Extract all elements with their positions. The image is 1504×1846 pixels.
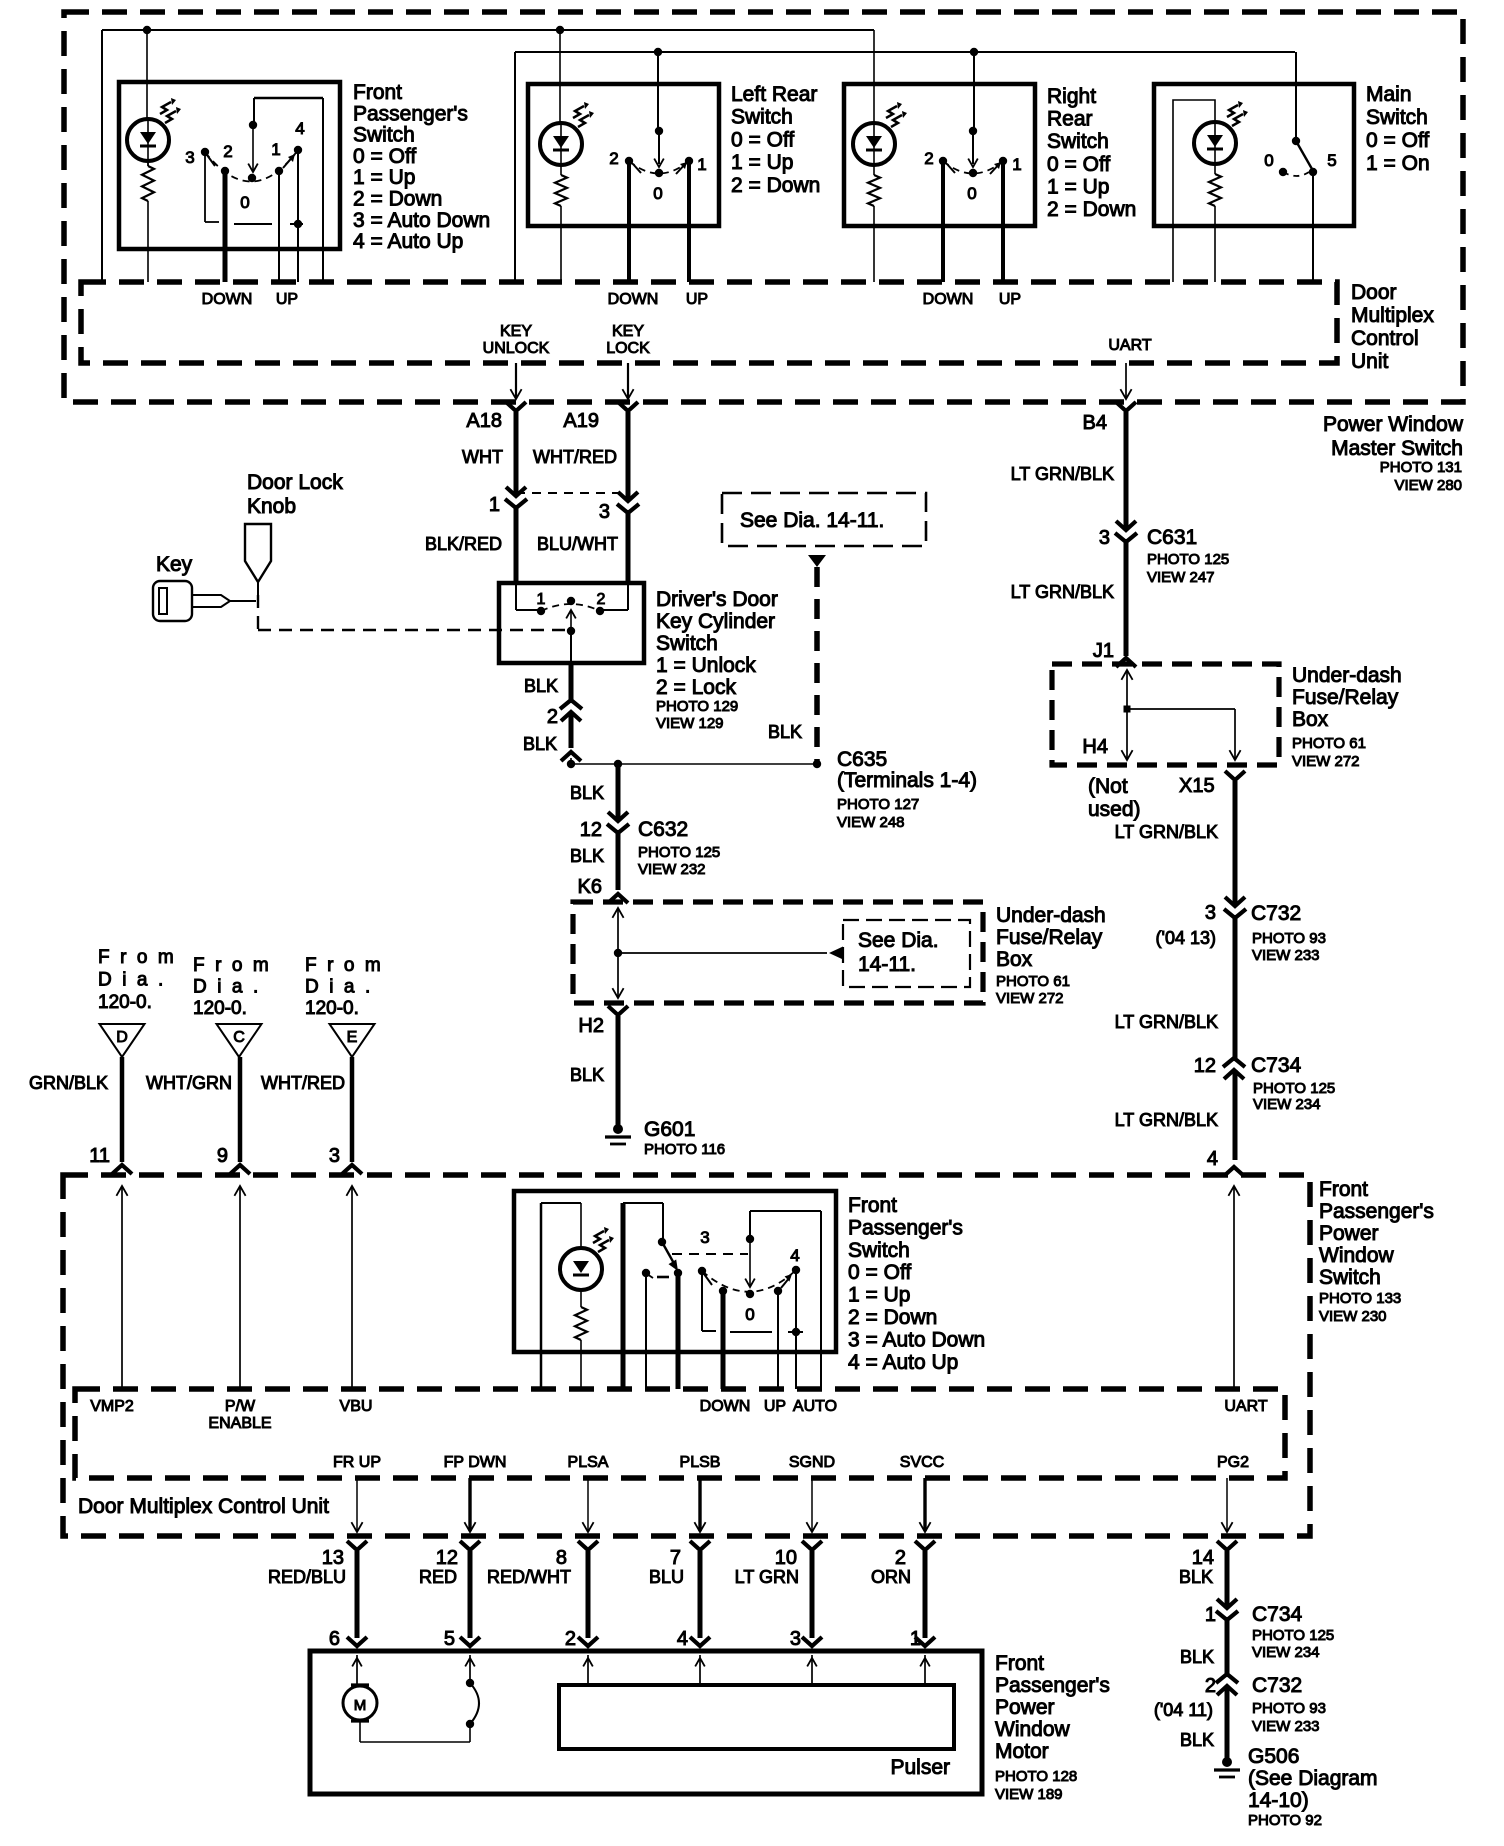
svg-text:Front: Front bbox=[353, 81, 402, 104]
svg-text:1: 1 bbox=[910, 1628, 921, 1650]
svg-text:Switch: Switch bbox=[656, 632, 718, 655]
svg-text:2 = Down: 2 = Down bbox=[848, 1306, 937, 1329]
svg-text:C: C bbox=[233, 1029, 245, 1046]
svg-text:Master Switch: Master Switch bbox=[1331, 437, 1463, 460]
svg-text:2: 2 bbox=[223, 142, 232, 161]
svg-text:LT GRN/BLK: LT GRN/BLK bbox=[1011, 464, 1114, 484]
svg-text:0 = Off: 0 = Off bbox=[353, 145, 416, 168]
svg-text:C631: C631 bbox=[1147, 526, 1197, 549]
svg-text:PG2: PG2 bbox=[1217, 1454, 1249, 1471]
svg-text:PHOTO 125: PHOTO 125 bbox=[1147, 551, 1229, 568]
svg-text:D: D bbox=[116, 1029, 128, 1046]
svg-text:VIEW 233: VIEW 233 bbox=[1252, 1718, 1320, 1735]
svg-text:1 = Up: 1 = Up bbox=[848, 1284, 910, 1307]
svg-text:PHOTO 128: PHOTO 128 bbox=[995, 1768, 1077, 1785]
svg-text:Switch: Switch bbox=[1047, 130, 1109, 153]
svg-text:0: 0 bbox=[745, 1305, 754, 1324]
svg-text:BLK: BLK bbox=[1179, 1567, 1213, 1587]
svg-text:VMP2: VMP2 bbox=[90, 1398, 134, 1415]
svg-text:Multiplex: Multiplex bbox=[1351, 304, 1434, 327]
svg-text:2 = Down: 2 = Down bbox=[731, 174, 820, 197]
svg-text:3: 3 bbox=[700, 1228, 709, 1247]
svg-text:4: 4 bbox=[790, 1246, 799, 1265]
svg-text:Switch: Switch bbox=[353, 124, 415, 147]
svg-text:PHOTO 125: PHOTO 125 bbox=[638, 844, 720, 861]
svg-text:Door Lock: Door Lock bbox=[247, 471, 343, 494]
svg-text:120-0.: 120-0. bbox=[305, 998, 359, 1019]
svg-text:VIEW 247: VIEW 247 bbox=[1147, 569, 1215, 586]
svg-text:3: 3 bbox=[1205, 902, 1216, 924]
svg-text:C732: C732 bbox=[1251, 902, 1301, 925]
svg-text:120-0.: 120-0. bbox=[98, 992, 152, 1013]
svg-text:120-0.: 120-0. bbox=[193, 998, 247, 1019]
svg-text:12: 12 bbox=[1194, 1055, 1216, 1077]
svg-text:Switch: Switch bbox=[1319, 1266, 1381, 1289]
svg-text:1: 1 bbox=[537, 591, 546, 608]
svg-text:C732: C732 bbox=[1252, 1674, 1302, 1697]
svg-text:LT GRN/BLK: LT GRN/BLK bbox=[1115, 1012, 1218, 1032]
svg-text:ENABLE: ENABLE bbox=[208, 1415, 271, 1432]
svg-text:VIEW 189: VIEW 189 bbox=[995, 1786, 1063, 1803]
svg-text:DOWN: DOWN bbox=[202, 291, 253, 308]
svg-text:Front: Front bbox=[1319, 1178, 1368, 1201]
svg-text:WHT: WHT bbox=[462, 447, 503, 467]
svg-text:UP: UP bbox=[999, 291, 1021, 308]
svg-text:J1: J1 bbox=[1093, 640, 1114, 662]
svg-text:See Dia. 14-11.: See Dia. 14-11. bbox=[740, 509, 884, 532]
svg-text:10: 10 bbox=[775, 1547, 797, 1569]
svg-text:2: 2 bbox=[565, 1628, 576, 1650]
svg-text:4: 4 bbox=[677, 1628, 688, 1650]
svg-text:RED: RED bbox=[419, 1567, 457, 1587]
svg-text:Door Multiplex Control Unit: Door Multiplex Control Unit bbox=[78, 1495, 329, 1518]
svg-text:VIEW 272: VIEW 272 bbox=[1292, 753, 1360, 770]
svg-text:7: 7 bbox=[670, 1547, 681, 1569]
svg-text:BLK: BLK bbox=[1180, 1730, 1214, 1750]
svg-text:2: 2 bbox=[924, 149, 933, 168]
svg-text:used): used) bbox=[1088, 798, 1141, 821]
svg-text:PHOTO 92: PHOTO 92 bbox=[1248, 1812, 1322, 1829]
svg-text:SGND: SGND bbox=[789, 1454, 835, 1471]
svg-text:2: 2 bbox=[609, 149, 618, 168]
svg-text:3: 3 bbox=[599, 501, 610, 523]
svg-text:LT GRN/BLK: LT GRN/BLK bbox=[1011, 582, 1114, 602]
svg-text:F r o m: F r o m bbox=[98, 947, 176, 968]
svg-text:3: 3 bbox=[185, 148, 194, 167]
svg-text:PHOTO 125: PHOTO 125 bbox=[1252, 1627, 1334, 1644]
svg-text:14-10): 14-10) bbox=[1248, 1789, 1309, 1812]
svg-text:2: 2 bbox=[597, 591, 606, 608]
svg-text:14-11.: 14-11. bbox=[858, 953, 916, 976]
svg-text:Rear: Rear bbox=[1047, 108, 1093, 131]
svg-text:(Terminals 1-4): (Terminals 1-4) bbox=[837, 769, 977, 792]
svg-text:G506: G506 bbox=[1248, 1745, 1299, 1768]
svg-text:4: 4 bbox=[1207, 1148, 1218, 1170]
svg-text:DOWN: DOWN bbox=[923, 291, 974, 308]
svg-text:BLK: BLK bbox=[1180, 1647, 1214, 1667]
svg-text:LOCK: LOCK bbox=[606, 340, 650, 357]
svg-text:FP DWN: FP DWN bbox=[444, 1454, 507, 1471]
svg-text:14: 14 bbox=[1192, 1547, 1214, 1569]
svg-text:VIEW 272: VIEW 272 bbox=[996, 990, 1064, 1007]
svg-text:BLK: BLK bbox=[523, 734, 557, 754]
svg-text:1 = Up: 1 = Up bbox=[1047, 175, 1109, 198]
svg-text:KEY: KEY bbox=[500, 323, 532, 340]
svg-text:BLK: BLK bbox=[570, 1065, 604, 1085]
svg-text:0 = Off: 0 = Off bbox=[1047, 153, 1110, 176]
svg-text:BLK: BLK bbox=[768, 722, 802, 742]
svg-text:PHOTO 133: PHOTO 133 bbox=[1319, 1290, 1401, 1307]
svg-text:BLU: BLU bbox=[649, 1567, 684, 1587]
svg-text:PHOTO 93: PHOTO 93 bbox=[1252, 930, 1326, 947]
svg-text:0: 0 bbox=[240, 193, 249, 212]
svg-text:B4: B4 bbox=[1083, 412, 1107, 434]
svg-text:Passenger's: Passenger's bbox=[995, 1674, 1110, 1697]
svg-text:C632: C632 bbox=[638, 818, 688, 841]
svg-text:PHOTO 127: PHOTO 127 bbox=[837, 796, 919, 813]
svg-text:3 = Auto Down: 3 = Auto Down bbox=[353, 209, 490, 232]
svg-text:Front: Front bbox=[848, 1194, 897, 1217]
svg-text:H4: H4 bbox=[1082, 736, 1108, 758]
svg-text:Box: Box bbox=[1292, 708, 1329, 731]
svg-text:8: 8 bbox=[556, 1547, 567, 1569]
svg-text:KEY: KEY bbox=[612, 323, 644, 340]
svg-text:Window: Window bbox=[995, 1718, 1071, 1741]
svg-text:Box: Box bbox=[996, 948, 1033, 971]
svg-text:('04 11): ('04 11) bbox=[1154, 1700, 1213, 1720]
svg-text:0 = Off: 0 = Off bbox=[848, 1261, 911, 1284]
svg-text:4 = Auto Up: 4 = Auto Up bbox=[353, 230, 463, 253]
svg-text:GRN/BLK: GRN/BLK bbox=[29, 1073, 108, 1093]
svg-text:F r o m: F r o m bbox=[305, 955, 383, 976]
svg-text:PHOTO 125: PHOTO 125 bbox=[1253, 1080, 1335, 1097]
svg-text:Door: Door bbox=[1351, 281, 1397, 304]
svg-text:RED/WHT: RED/WHT bbox=[487, 1567, 571, 1587]
svg-text:2: 2 bbox=[895, 1547, 906, 1569]
svg-text:PLSA: PLSA bbox=[568, 1454, 609, 1471]
svg-text:Passenger's: Passenger's bbox=[1319, 1200, 1434, 1223]
svg-text:BLK: BLK bbox=[570, 783, 604, 803]
svg-text:2: 2 bbox=[547, 706, 558, 728]
svg-text:VIEW 232: VIEW 232 bbox=[638, 861, 706, 878]
svg-text:H2: H2 bbox=[578, 1015, 604, 1037]
svg-text:BLK: BLK bbox=[524, 676, 558, 696]
svg-text:0: 0 bbox=[653, 184, 662, 203]
svg-text:K6: K6 bbox=[578, 876, 602, 898]
svg-text:PHOTO 129: PHOTO 129 bbox=[656, 698, 738, 715]
svg-text:3: 3 bbox=[1099, 527, 1110, 549]
svg-text:Unit: Unit bbox=[1351, 350, 1389, 373]
svg-text:('04 13): ('04 13) bbox=[1156, 928, 1216, 948]
svg-text:1 = Up: 1 = Up bbox=[731, 151, 793, 174]
svg-text:PLSB: PLSB bbox=[680, 1454, 721, 1471]
svg-text:3 = Auto Down: 3 = Auto Down bbox=[848, 1328, 985, 1351]
svg-text:LT GRN/BLK: LT GRN/BLK bbox=[1115, 1110, 1218, 1130]
svg-text:13: 13 bbox=[322, 1547, 344, 1569]
svg-text:Power Window: Power Window bbox=[1323, 413, 1464, 436]
svg-text:D i a .: D i a . bbox=[98, 970, 166, 991]
svg-text:Fuse/Relay: Fuse/Relay bbox=[1292, 686, 1399, 709]
svg-text:ORN: ORN bbox=[871, 1567, 911, 1587]
svg-text:1 = Unlock: 1 = Unlock bbox=[656, 654, 756, 677]
svg-text:G601: G601 bbox=[644, 1118, 695, 1141]
svg-text:9: 9 bbox=[217, 1145, 228, 1167]
svg-text:VBU: VBU bbox=[340, 1398, 373, 1415]
svg-text:BLK/RED: BLK/RED bbox=[425, 534, 502, 554]
svg-text:1: 1 bbox=[271, 140, 280, 159]
svg-text:2 = Lock: 2 = Lock bbox=[656, 676, 736, 699]
svg-text:4 = Auto Up: 4 = Auto Up bbox=[848, 1351, 958, 1374]
svg-text:RED/BLU: RED/BLU bbox=[268, 1567, 346, 1587]
svg-text:See Dia.: See Dia. bbox=[858, 929, 939, 952]
svg-text:BLU/WHT: BLU/WHT bbox=[537, 534, 618, 554]
svg-text:VIEW 129: VIEW 129 bbox=[656, 715, 724, 732]
svg-text:E: E bbox=[347, 1029, 358, 1046]
svg-text:PHOTO 61: PHOTO 61 bbox=[1292, 735, 1366, 752]
svg-text:3: 3 bbox=[790, 1628, 801, 1650]
svg-text:12: 12 bbox=[436, 1547, 458, 1569]
svg-text:0 = Off: 0 = Off bbox=[731, 128, 794, 151]
svg-text:PHOTO 131: PHOTO 131 bbox=[1380, 459, 1462, 476]
svg-text:1 = On: 1 = On bbox=[1366, 152, 1430, 175]
svg-text:D i a .: D i a . bbox=[305, 977, 373, 998]
svg-text:1 = Up: 1 = Up bbox=[353, 166, 415, 189]
svg-text:(Not: (Not bbox=[1088, 775, 1128, 798]
svg-text:VIEW 280: VIEW 280 bbox=[1394, 477, 1462, 494]
svg-text:VIEW 234: VIEW 234 bbox=[1252, 1644, 1320, 1661]
svg-text:1: 1 bbox=[697, 155, 706, 174]
svg-text:Switch: Switch bbox=[1366, 106, 1428, 129]
svg-text:Key: Key bbox=[156, 553, 193, 576]
svg-text:P/W: P/W bbox=[225, 1398, 256, 1415]
svg-text:VIEW 233: VIEW 233 bbox=[1252, 947, 1320, 964]
svg-text:Motor: Motor bbox=[995, 1740, 1049, 1763]
svg-text:5: 5 bbox=[1327, 151, 1336, 170]
svg-text:1: 1 bbox=[489, 494, 500, 516]
svg-text:Power: Power bbox=[995, 1696, 1055, 1719]
svg-text:VIEW 248: VIEW 248 bbox=[837, 814, 905, 831]
svg-text:Under-dash: Under-dash bbox=[996, 904, 1106, 927]
svg-text:WHT/RED: WHT/RED bbox=[261, 1073, 345, 1093]
svg-text:LT GRN: LT GRN bbox=[735, 1567, 799, 1587]
svg-text:FR UP: FR UP bbox=[333, 1454, 381, 1471]
svg-text:VIEW 230: VIEW 230 bbox=[1319, 1308, 1387, 1325]
svg-text:UART: UART bbox=[1224, 1398, 1267, 1415]
svg-text:Main: Main bbox=[1366, 83, 1412, 106]
svg-text:Driver's Door: Driver's Door bbox=[656, 588, 778, 611]
svg-text:PHOTO 116: PHOTO 116 bbox=[644, 1141, 725, 1158]
svg-text:UP: UP bbox=[764, 1398, 786, 1415]
svg-text:1: 1 bbox=[1205, 1604, 1216, 1626]
svg-text:DOWN: DOWN bbox=[700, 1398, 751, 1415]
svg-text:Key Cylinder: Key Cylinder bbox=[656, 610, 775, 633]
svg-text:Switch: Switch bbox=[731, 106, 793, 129]
svg-text:12: 12 bbox=[580, 819, 602, 841]
svg-text:C734: C734 bbox=[1251, 1054, 1302, 1077]
svg-text:M: M bbox=[354, 1697, 367, 1714]
svg-text:PHOTO 61: PHOTO 61 bbox=[996, 973, 1070, 990]
svg-text:X15: X15 bbox=[1179, 775, 1215, 797]
svg-text:0 = Off: 0 = Off bbox=[1366, 129, 1429, 152]
svg-text:WHT/RED: WHT/RED bbox=[533, 447, 617, 467]
svg-text:2: 2 bbox=[1205, 1675, 1216, 1697]
svg-text:2 = Down: 2 = Down bbox=[1047, 198, 1136, 221]
svg-text:UNLOCK: UNLOCK bbox=[483, 340, 550, 357]
svg-text:AUTO: AUTO bbox=[793, 1398, 837, 1415]
svg-text:A18: A18 bbox=[466, 410, 502, 432]
svg-text:F r o m: F r o m bbox=[193, 955, 271, 976]
svg-text:Switch: Switch bbox=[848, 1239, 910, 1262]
svg-text:3: 3 bbox=[329, 1145, 340, 1167]
svg-text:Passenger's: Passenger's bbox=[353, 102, 468, 125]
svg-text:Right: Right bbox=[1047, 85, 1096, 108]
svg-text:Left Rear: Left Rear bbox=[731, 83, 817, 106]
svg-text:0: 0 bbox=[1264, 151, 1273, 170]
svg-text:2 = Down: 2 = Down bbox=[353, 188, 442, 211]
svg-text:PHOTO 93: PHOTO 93 bbox=[1252, 1700, 1326, 1717]
svg-text:LT GRN/BLK: LT GRN/BLK bbox=[1115, 822, 1218, 842]
svg-text:5: 5 bbox=[444, 1628, 455, 1650]
svg-text:11: 11 bbox=[89, 1145, 110, 1167]
svg-text:Window: Window bbox=[1319, 1244, 1395, 1267]
svg-text:(See Diagram: (See Diagram bbox=[1248, 1767, 1378, 1790]
svg-text:Power: Power bbox=[1319, 1222, 1379, 1245]
svg-text:Front: Front bbox=[995, 1652, 1044, 1675]
svg-text:VIEW 234: VIEW 234 bbox=[1253, 1096, 1321, 1113]
svg-text:DOWN: DOWN bbox=[608, 291, 659, 308]
svg-text:SVCC: SVCC bbox=[900, 1454, 944, 1471]
svg-text:BLK: BLK bbox=[570, 846, 604, 866]
svg-text:Knob: Knob bbox=[247, 495, 296, 518]
svg-text:UP: UP bbox=[686, 291, 708, 308]
svg-text:1: 1 bbox=[1012, 155, 1021, 174]
svg-text:Control: Control bbox=[1351, 327, 1419, 350]
svg-text:0: 0 bbox=[967, 184, 976, 203]
svg-text:Pulser: Pulser bbox=[890, 1756, 950, 1779]
svg-text:WHT/GRN: WHT/GRN bbox=[146, 1073, 232, 1093]
svg-text:Fuse/Relay: Fuse/Relay bbox=[996, 926, 1103, 949]
svg-text:C635: C635 bbox=[837, 748, 887, 771]
svg-text:6: 6 bbox=[329, 1628, 340, 1650]
svg-text:Passenger's: Passenger's bbox=[848, 1216, 963, 1239]
svg-text:D i a .: D i a . bbox=[193, 977, 261, 998]
svg-text:UP: UP bbox=[276, 291, 298, 308]
svg-text:UART: UART bbox=[1108, 337, 1151, 354]
svg-text:Under-dash: Under-dash bbox=[1292, 664, 1402, 687]
svg-text:4: 4 bbox=[295, 119, 304, 138]
svg-text:C734: C734 bbox=[1252, 1603, 1303, 1626]
svg-text:A19: A19 bbox=[563, 410, 599, 432]
